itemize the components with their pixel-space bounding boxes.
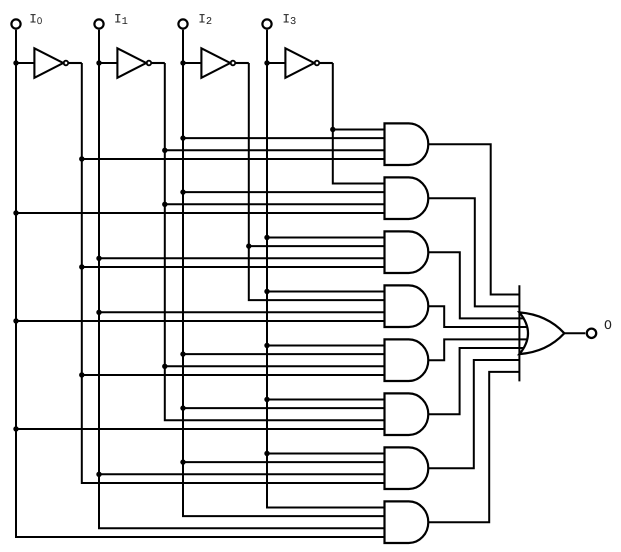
wire branch I2 at y=138.1 to AND gate input — [183, 137, 385, 139]
wire branch I0 at y=320.95 to AND gate input — [16, 320, 385, 322]
wire branch I1 at y=258.3 to AND gate input — [99, 257, 385, 259]
junction I3 to inverter tap — [264, 60, 269, 65]
AND gate A7 (4-input) — [385, 447, 429, 489]
AND gate A5 (4-input) — [385, 339, 429, 381]
AND gate A3 (4-input) — [385, 231, 429, 273]
svg-text:I2: I2 — [198, 12, 212, 29]
wire branch notI0 at y=374.95 to AND gate input — [82, 374, 385, 376]
junction notI2 branch — [246, 243, 251, 248]
wire net I0: vertical from input terminal down, ends right to AND column — [16, 30, 385, 537]
wire branch I3 at y=453.45 to AND gate input — [267, 452, 385, 454]
svg-text:I3: I3 — [282, 12, 296, 29]
input terminal I1 — [94, 19, 103, 28]
junction I3 branch — [264, 235, 269, 240]
junction I3 branch — [264, 343, 269, 348]
wire net notI2: vertical from inverter U3 output, ends right to AND column — [249, 63, 385, 300]
AND gate A4 (4-input) — [385, 285, 429, 327]
wire net notI0: vertical from inverter U1 output, ends right to AND column — [82, 63, 385, 483]
wire branch notI3 at y=129.45 to AND gate input — [333, 128, 385, 130]
wire AND A8 output to OR input 8 — [428, 372, 519, 522]
junction I2 branch — [180, 351, 185, 356]
wire branch I0 at y=428.95 to AND gate input — [16, 428, 385, 430]
wire branch notI1 at y=204.3 to AND gate input — [165, 203, 385, 205]
wire AND A6 output to OR input 6 — [428, 348, 524, 414]
junction notI1 branch — [162, 148, 167, 153]
svg-text:I1: I1 — [114, 12, 128, 29]
inverter U1 (NOT gate) on input I0 — [16, 48, 82, 78]
junction notI1 branch — [162, 364, 167, 369]
junction notI1 branch — [162, 202, 167, 207]
wire branch notI0 at y=158.95 to AND gate input — [82, 158, 385, 160]
wire net I2: vertical from input terminal down, ends right to AND column — [183, 30, 385, 516]
svg-text:O: O — [604, 318, 612, 333]
wire net I1: vertical from input terminal down, ends right to AND column — [99, 30, 385, 529]
wire branch I3 at y=345.45 to AND gate input — [267, 344, 385, 346]
input terminal I0 — [11, 19, 20, 28]
wire AND A2 output to OR input 2 — [428, 198, 519, 306]
AND gate A1 (4-input) — [385, 123, 429, 165]
junction I3 branch — [264, 397, 269, 402]
output terminal O — [587, 329, 596, 338]
wire net notI3: vertical from inverter U4 output, ends right to AND column — [333, 63, 385, 183]
wire AND A7 output to OR input 7 — [428, 360, 519, 468]
junction I0 to inverter tap — [13, 60, 18, 65]
inverter U2 (NOT gate) on input I1 — [99, 48, 165, 78]
junction I1 to inverter tap — [96, 60, 101, 65]
junction I1 branch — [96, 256, 101, 261]
AND gate A8 (4-input) — [385, 501, 429, 543]
wire branch notI1 at y=366.3 to AND gate input — [165, 365, 385, 367]
wire OR output to terminal O — [564, 332, 585, 334]
input terminal I3 — [262, 19, 271, 28]
junction I3 branch — [264, 451, 269, 456]
wire branch I2 at y=408.1 to AND gate input — [183, 407, 385, 409]
inverter U3 (NOT gate) on input I2 — [183, 48, 249, 78]
AND gate A6 (4-input) — [385, 393, 429, 435]
junction I2 branch — [180, 135, 185, 140]
input terminal I2 — [178, 19, 187, 28]
wire branch notI2 at y=246.1 to AND gate input — [249, 245, 385, 247]
inverter U4 (NOT gate) on input I3 — [267, 48, 333, 78]
junction I2 to inverter tap — [180, 60, 185, 65]
wire branch I3 at y=291.45 to AND gate input — [267, 290, 385, 292]
junction notI0 branch — [79, 264, 84, 269]
AND gate A2 (4-input) — [385, 177, 429, 219]
wire branch I2 at y=192.1 to AND gate input — [183, 191, 385, 193]
wire branch I3 at y=237.45 to AND gate input — [267, 236, 385, 238]
junction I2 branch — [180, 405, 185, 410]
wire OR gate input bus vertical — [518, 285, 520, 381]
wire branch I0 at y=212.95 to AND gate input — [16, 212, 385, 214]
junction I0 branch — [13, 210, 18, 215]
wire AND A5 output to OR input 5 — [428, 339, 528, 360]
wire AND A1 output to OR input 1 — [428, 144, 519, 294]
wire branch I1 at y=474.3 to AND gate input — [99, 473, 385, 475]
wire branch I1 at y=312.3 to AND gate input — [99, 311, 385, 313]
wire net I3: vertical from input terminal down, ends right to AND column — [267, 30, 385, 508]
wire branch notI1 at y=150.3 to AND gate input — [165, 149, 385, 151]
wire AND A4 output to OR input 4 — [428, 306, 528, 327]
junction notI3 branch — [330, 127, 335, 132]
junction notI0 branch — [79, 156, 84, 161]
junction notI0 branch — [79, 372, 84, 377]
junction I1 branch — [96, 472, 101, 477]
OR gate O1 (8-input) — [519, 312, 564, 354]
wire branch I2 at y=354.1 to AND gate input — [183, 353, 385, 355]
junction I2 branch — [180, 459, 185, 464]
junction I0 branch — [13, 426, 18, 431]
wire branch I3 at y=399.45 to AND gate input — [267, 398, 385, 400]
wire branch notI0 at y=266.95 to AND gate input — [82, 266, 385, 268]
junction I1 branch — [96, 310, 101, 315]
wire AND A3 output to OR input 3 — [428, 252, 524, 318]
junction I2 branch — [180, 189, 185, 194]
wire branch I2 at y=462.1 to AND gate input — [183, 461, 385, 463]
junction I3 branch — [264, 289, 269, 294]
junction I0 branch — [13, 318, 18, 323]
wire net notI1: vertical from inverter U2 output, ends right to AND column — [165, 63, 385, 420]
svg-text:I0: I0 — [29, 12, 42, 28]
